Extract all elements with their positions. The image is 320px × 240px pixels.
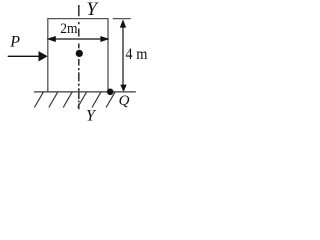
dimension 4m top cap xyxy=(113,18,131,20)
dimension 2m arrow xyxy=(53,38,103,40)
ground hatch 2 xyxy=(49,92,58,107)
ground line xyxy=(34,91,136,93)
dimension 4m up arrowhead xyxy=(120,19,126,27)
ground hatch 6 xyxy=(106,92,115,107)
ground hatch 5 xyxy=(92,92,101,107)
ground hatch 3 xyxy=(63,92,72,107)
svg-text:Q: Q xyxy=(119,93,130,109)
force arrow P xyxy=(8,55,40,57)
dimension 4m vertical line xyxy=(122,24,124,86)
ground hatch 1 xyxy=(34,92,43,107)
svg-text:Y: Y xyxy=(86,0,99,20)
svg-text:Y: Y xyxy=(86,108,97,125)
ground hatch 4 xyxy=(78,92,87,107)
dimension 4m down arrowhead xyxy=(120,85,126,92)
point Q dot xyxy=(107,89,114,96)
centerline Y-Y (dash-dot segments) xyxy=(78,5,80,109)
svg-text:2m: 2m xyxy=(60,21,78,37)
center of mass dot xyxy=(76,50,83,57)
block rectangle xyxy=(48,19,108,92)
svg-text:4 m: 4 m xyxy=(125,46,147,63)
svg-text:P: P xyxy=(9,34,20,51)
